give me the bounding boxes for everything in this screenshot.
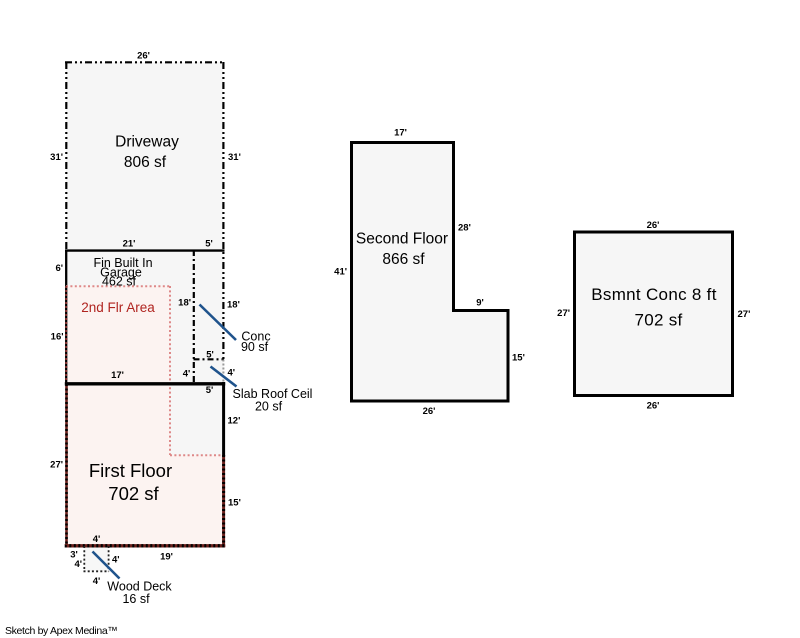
first floor top border: [65, 382, 225, 385]
wood deck dotted outline: [84, 546, 110, 572]
svg-text:31': 31': [50, 152, 63, 163]
svg-text:41': 41': [334, 266, 347, 277]
svg-text:27': 27': [557, 308, 570, 319]
dimension 4' deck top: [93, 534, 101, 545]
svg-text:462 sf: 462 sf: [102, 274, 137, 288]
slab roof ceil label: [233, 387, 313, 414]
slab roof callout line: [211, 367, 237, 387]
svg-text:2nd Flr Area: 2nd Flr Area: [81, 300, 155, 315]
svg-text:90 sf: 90 sf: [241, 340, 269, 354]
garage and conc area fill: [66, 250, 224, 383]
first floor left border: [65, 384, 68, 545]
dimension 17' second floor top: [394, 127, 407, 138]
dimension 31' driveway right: [228, 152, 241, 163]
svg-text:26': 26': [423, 406, 436, 417]
dimension 27' first floor left: [50, 459, 63, 470]
first floor right upper border: [222, 382, 225, 456]
dimension 18' conc right: [227, 300, 240, 311]
svg-text:31': 31': [228, 152, 241, 163]
svg-text:18': 18': [227, 300, 240, 311]
svg-text:27': 27': [50, 459, 63, 470]
svg-text:4': 4': [93, 576, 101, 587]
wood deck callout line: [93, 552, 120, 579]
dimension 5' first floor top right: [206, 385, 214, 396]
garage left border: [65, 250, 67, 384]
dimension 5' conc top: [205, 238, 213, 249]
svg-text:16 sf: 16 sf: [122, 592, 150, 606]
second floor label: [356, 230, 448, 268]
first floor label: [89, 460, 172, 504]
dimension 4' deck right: [112, 554, 120, 565]
svg-text:702 sf: 702 sf: [634, 311, 682, 330]
svg-text:4': 4': [93, 534, 101, 545]
svg-text:Driveway: Driveway: [115, 134, 179, 151]
svg-text:28': 28': [458, 222, 471, 233]
svg-text:26': 26': [647, 220, 660, 231]
second floor footprint dotted outline right upper: [169, 286, 171, 455]
svg-text:Second Floor: Second Floor: [356, 230, 448, 247]
dimension 15' first floor right lower: [228, 497, 241, 508]
dimension 9' second floor notch: [476, 297, 484, 308]
driveway label: [115, 134, 179, 172]
dimension 28' second floor right: [458, 222, 471, 233]
first floor notch area fill: [170, 383, 224, 455]
dimension 26' basement top: [647, 220, 660, 231]
conc callout line: [200, 305, 237, 341]
dimension 4' deck left: [74, 559, 82, 570]
conc label: [241, 330, 271, 355]
second floor outline: [352, 143, 509, 402]
garage conc divider wall: [193, 250, 195, 383]
footer branding: [5, 625, 118, 637]
svg-text:5': 5': [205, 238, 213, 249]
svg-text:5': 5': [206, 349, 214, 360]
dimension 6' garage left: [55, 263, 63, 274]
dimension 3' deck offset: [70, 549, 78, 560]
driveway and conc right border: [222, 62, 224, 360]
garage top border: [65, 249, 225, 251]
svg-text:15': 15': [228, 497, 241, 508]
svg-text:27': 27': [738, 309, 751, 320]
dimension 16' left: [51, 331, 64, 342]
svg-text:Sketch by Apex Medina™: Sketch by Apex Medina™: [5, 625, 118, 637]
dimension 41' second floor left: [334, 266, 347, 277]
second floor footprint dotted overlay on left wall: [65, 286, 67, 384]
svg-text:26': 26': [647, 400, 660, 411]
dimension 15' second floor right lower: [512, 352, 525, 363]
dimension 4' slab right: [228, 367, 236, 378]
dimension 26' basement bottom: [647, 400, 660, 411]
slab right gray dotted border: [222, 360, 224, 383]
wood deck fill: [84, 545, 109, 571]
svg-text:19': 19': [160, 551, 173, 562]
dimension 21' garage top: [123, 238, 136, 249]
dimension 4' deck bottom: [93, 576, 101, 587]
garage label: [93, 256, 152, 289]
first floor right lower border: [222, 455, 225, 547]
dimension 17' first floor top: [111, 370, 124, 381]
svg-text:806 sf: 806 sf: [124, 154, 167, 171]
dimension 5' conc bottom: [206, 349, 214, 360]
svg-text:6': 6': [55, 263, 63, 274]
svg-text:17': 17': [394, 127, 407, 138]
svg-text:17': 17': [111, 370, 124, 381]
wood deck label: [107, 580, 172, 607]
driveway area fill: [66, 62, 223, 250]
dimension 26' second floor bottom: [423, 406, 436, 417]
dimension 26' driveway top: [137, 51, 150, 62]
svg-text:4': 4': [183, 368, 191, 379]
basement label: [591, 285, 716, 330]
dimension 4' slab left: [183, 368, 191, 379]
svg-text:4': 4': [112, 554, 120, 565]
basement outline: [575, 232, 733, 396]
second floor footprint dotted outline notch: [170, 454, 224, 456]
svg-text:20 sf: 20 sf: [255, 400, 283, 414]
svg-text:4': 4': [74, 559, 82, 570]
dimension 27' basement left: [557, 308, 570, 319]
driveway left border: [65, 62, 67, 250]
dimension 19' first floor bottom: [160, 551, 173, 562]
first floor bottom border: [65, 544, 225, 547]
svg-text:26': 26': [137, 51, 150, 62]
svg-text:5': 5': [206, 385, 214, 396]
svg-text:866 sf: 866 sf: [382, 251, 425, 268]
svg-text:9': 9': [476, 297, 484, 308]
svg-text:16': 16': [51, 331, 64, 342]
dimension 27' basement right: [738, 309, 751, 320]
svg-text:12': 12': [228, 415, 241, 426]
svg-text:15': 15': [512, 352, 525, 363]
driveway top border: [65, 61, 225, 63]
svg-text:18': 18': [178, 298, 191, 309]
dimension 12' first floor right upper: [228, 415, 241, 426]
svg-text:First Floor: First Floor: [89, 460, 172, 481]
second floor footprint pink fill: [66, 286, 224, 545]
second floor footprint dotted outline top: [66, 285, 170, 287]
svg-text:Bsmnt Conc 8 ft: Bsmnt Conc 8 ft: [591, 285, 716, 304]
svg-text:4': 4': [228, 367, 236, 378]
svg-text:21': 21': [123, 238, 136, 249]
dimension 18' conc left: [178, 298, 191, 309]
svg-text:702 sf: 702 sf: [108, 483, 159, 504]
2nd floor area label: [81, 300, 155, 315]
conc bottom border: [194, 358, 225, 360]
dimension 31' driveway left: [50, 152, 63, 163]
